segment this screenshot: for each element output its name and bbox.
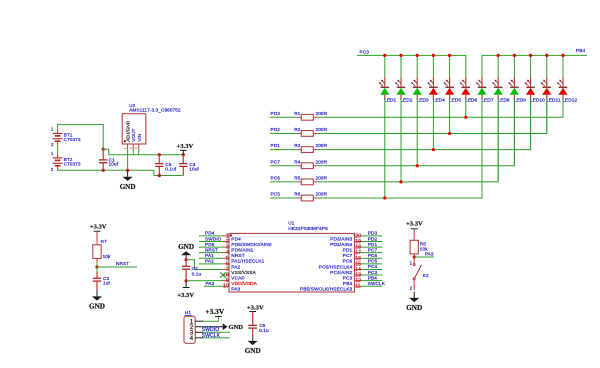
svg-text:PC3: PC3 bbox=[343, 275, 353, 281]
svg-text:200R: 200R bbox=[316, 111, 328, 116]
ground GND C6 bbox=[245, 338, 261, 355]
net label PD2 row bbox=[271, 127, 281, 132]
svg-text:PC5: PC5 bbox=[368, 259, 378, 264]
LED LED5 bbox=[444, 78, 462, 104]
wire LED12 cathode bbox=[562, 100, 564, 118]
svg-text:200R: 200R bbox=[316, 175, 328, 180]
junction PA3 node bbox=[413, 255, 416, 258]
svg-text:LED2: LED2 bbox=[400, 97, 412, 103]
capacitor C6 bbox=[248, 312, 269, 339]
net label SWDIO bbox=[202, 327, 219, 333]
ground GND mcu rail bbox=[178, 243, 194, 260]
wire LED6 cathode bbox=[465, 100, 467, 118]
switch K2 bbox=[410, 257, 429, 291]
junction row R4 to LED3 bbox=[416, 164, 419, 167]
pin 7 U1 VSS/VSSA bbox=[223, 267, 257, 276]
svg-text:U1: U1 bbox=[288, 220, 295, 226]
net label PA1 left bbox=[205, 253, 214, 258]
svg-text:LED10: LED10 bbox=[530, 97, 545, 103]
junction NRST node bbox=[95, 265, 98, 268]
wire U2 VOUT stub bbox=[132, 150, 134, 155]
LED LED10 bbox=[525, 78, 545, 104]
wire SWDIO net bbox=[203, 331, 230, 333]
pin 9 U1 VDD/VDDA bbox=[223, 278, 258, 287]
wire LED2 cathode bbox=[400, 100, 402, 182]
svg-text:0.1uf: 0.1uf bbox=[165, 166, 177, 171]
svg-text:200R: 200R bbox=[316, 192, 328, 197]
net label PB4 bus bbox=[576, 48, 585, 53]
LED LED3 bbox=[411, 78, 429, 104]
svg-text:VCAP: VCAP bbox=[231, 275, 244, 281]
junction LED4 bus bbox=[432, 54, 435, 57]
power +3.3V power section bbox=[177, 143, 194, 155]
svg-text:PB4: PB4 bbox=[368, 275, 377, 280]
resistor R8 bbox=[410, 229, 428, 257]
wire LED4 anode bbox=[432, 55, 434, 77]
svg-text:LED9: LED9 bbox=[514, 97, 526, 103]
MCU U1 bbox=[229, 220, 355, 292]
capacitor C2 bbox=[182, 260, 202, 281]
power +3.3V H1 bbox=[205, 307, 224, 317]
svg-text:C70373: C70373 bbox=[64, 161, 81, 166]
svg-text:PD3/AIN3: PD3/AIN3 bbox=[330, 236, 352, 242]
wire LED3 cathode bbox=[416, 100, 418, 166]
svg-text:PC6: PC6 bbox=[368, 253, 378, 258]
svg-text:GND: GND bbox=[178, 243, 194, 251]
wire LED4 cathode bbox=[432, 100, 434, 150]
resistor R2 bbox=[294, 127, 327, 136]
pin 1 U2 ADJ/GND bbox=[124, 144, 128, 150]
svg-text:K2: K2 bbox=[423, 273, 429, 278]
LED LED7 bbox=[476, 78, 494, 104]
svg-text:PA2: PA2 bbox=[205, 259, 214, 264]
pin 13 U1 PC3 bbox=[343, 273, 362, 282]
net label SWCLK bbox=[202, 333, 221, 339]
svg-text:SWCLK: SWCLK bbox=[202, 333, 221, 339]
svg-text:LED8: LED8 bbox=[498, 97, 510, 103]
pin 14 U1 PC4/AIN2 bbox=[330, 267, 361, 276]
pin 5 U1 PA1/HSECLK1 bbox=[223, 256, 265, 265]
svg-text:PD4: PD4 bbox=[205, 231, 215, 236]
svg-text:R6: R6 bbox=[294, 192, 300, 197]
svg-text:PD4: PD4 bbox=[231, 236, 241, 242]
net label PD6 left bbox=[205, 242, 215, 247]
wire LED5 anode bbox=[449, 55, 451, 77]
net label PC6 right bbox=[368, 253, 378, 258]
pin 2 U2 VOUT bbox=[129, 144, 133, 150]
net label PD4 left bbox=[205, 231, 215, 236]
wire PC5 to R6 bbox=[270, 197, 298, 199]
net label PC4 right bbox=[368, 264, 378, 269]
power +3.3V C6 bbox=[247, 305, 264, 312]
wire R3 to LEDs bbox=[317, 100, 530, 150]
svg-text:LED4: LED4 bbox=[433, 97, 445, 103]
svg-text:R8: R8 bbox=[420, 241, 426, 246]
svg-text:200R: 200R bbox=[316, 127, 328, 132]
wire LED1 cathode bbox=[384, 100, 386, 199]
wire LED12 anode bbox=[562, 55, 564, 77]
svg-text:SWCLK: SWCLK bbox=[368, 281, 386, 286]
svg-text:PA1/HSECLK1: PA1/HSECLK1 bbox=[231, 259, 264, 265]
svg-text:1uf: 1uf bbox=[103, 281, 110, 286]
resistor R3 bbox=[294, 143, 327, 152]
wire LED5 cathode bbox=[449, 100, 451, 134]
svg-text:10: 10 bbox=[223, 284, 229, 290]
pin 17 U1 PC7 bbox=[343, 250, 362, 259]
wire LED3 anode bbox=[416, 55, 418, 77]
svg-text:GND: GND bbox=[229, 324, 244, 331]
pin 16 U1 PC6 bbox=[343, 256, 362, 265]
svg-text:PC7: PC7 bbox=[368, 247, 378, 252]
svg-text:LED3: LED3 bbox=[417, 97, 429, 103]
svg-text:3: 3 bbox=[134, 147, 138, 149]
junction ground GND node bbox=[126, 169, 129, 172]
wire PC3 bus bbox=[357, 55, 466, 77]
junction LED12 bus bbox=[561, 54, 564, 57]
svg-text:+3.3V: +3.3V bbox=[90, 223, 107, 230]
junction LED5 bus bbox=[448, 54, 451, 57]
wire LED7 cathode bbox=[481, 100, 483, 199]
net label PC3 bus bbox=[360, 50, 370, 55]
junction LED3 bus bbox=[416, 54, 419, 57]
pin 20 U1 PD3/AIN3 bbox=[330, 233, 361, 242]
wire LED10 cathode bbox=[530, 100, 532, 150]
svg-text:PC6: PC6 bbox=[271, 175, 281, 180]
svg-text:GND: GND bbox=[245, 347, 261, 355]
junction LED11 bus bbox=[545, 54, 548, 57]
svg-text:+3.3V: +3.3V bbox=[177, 292, 194, 299]
svg-text:PC5/HSECLK4: PC5/HSECLK4 bbox=[319, 264, 353, 270]
svg-text:ADJ/GND: ADJ/GND bbox=[126, 120, 132, 142]
svg-text:PC7: PC7 bbox=[271, 159, 281, 164]
wire LED10 anode bbox=[530, 55, 532, 77]
wire PA3 net right bbox=[414, 256, 434, 258]
net label PC7 row bbox=[271, 159, 281, 164]
wire LED11 cathode bbox=[546, 100, 548, 134]
svg-text:200R: 200R bbox=[316, 143, 328, 148]
LED LED9 bbox=[508, 78, 526, 104]
svg-text:GND: GND bbox=[120, 183, 136, 191]
svg-text:PD2/AIN4: PD2/AIN4 bbox=[330, 242, 352, 248]
svg-text:LED1: LED1 bbox=[384, 97, 396, 103]
wire PD1 to R3 bbox=[270, 149, 298, 151]
svg-text:PB4: PB4 bbox=[576, 48, 585, 53]
svg-text:SWDIO: SWDIO bbox=[205, 236, 222, 241]
net label PA3 left bbox=[206, 281, 215, 286]
wire R4 to LEDs bbox=[317, 100, 514, 166]
svg-text:PC6: PC6 bbox=[343, 259, 353, 265]
junction row R6 to LED1 bbox=[383, 196, 386, 199]
wire net NRST left bbox=[199, 252, 223, 254]
junction LED2 bus bbox=[399, 54, 402, 57]
junction LED9 bus bbox=[513, 54, 516, 57]
battery BT2 bbox=[51, 151, 81, 172]
svg-text:VDD/VDDA: VDD/VDDA bbox=[231, 281, 257, 287]
wire VIN net bbox=[103, 149, 183, 155]
svg-text:10uf: 10uf bbox=[109, 161, 119, 166]
svg-text:NRST: NRST bbox=[116, 261, 129, 266]
wire PC7 to R4 bbox=[270, 165, 298, 167]
ground GND power section bbox=[120, 170, 136, 191]
header H1 bbox=[184, 310, 195, 343]
svg-text:R4: R4 bbox=[294, 159, 300, 164]
wire net PC7 right bbox=[362, 252, 383, 254]
svg-text:VIN: VIN bbox=[137, 133, 143, 142]
battery BT1 bbox=[51, 126, 81, 147]
svg-text:+3.3V: +3.3V bbox=[406, 220, 423, 227]
net label PA3 K2 bbox=[425, 252, 434, 257]
net label SWDIO left bbox=[205, 236, 222, 241]
junction LED1 bus bbox=[383, 54, 386, 57]
svg-text:10k: 10k bbox=[103, 254, 111, 259]
net label SWCLK right bbox=[368, 281, 386, 286]
LED LED2 bbox=[395, 78, 413, 104]
junction VSS node bbox=[185, 258, 188, 261]
svg-text:NRST: NRST bbox=[231, 253, 244, 259]
pin 2 H1 bbox=[190, 324, 204, 331]
svg-text:PD1: PD1 bbox=[343, 247, 353, 253]
svg-text:GND: GND bbox=[406, 304, 422, 312]
svg-text:LED7: LED7 bbox=[481, 97, 493, 103]
svg-text:PC4: PC4 bbox=[368, 264, 378, 269]
svg-text:PD3: PD3 bbox=[368, 231, 378, 236]
pin 2 U1 PD5/SWDIO/AIN0 bbox=[223, 239, 272, 248]
junction row R3 to LED4 bbox=[432, 148, 435, 151]
wire LED8 anode bbox=[497, 55, 499, 77]
wire SWCLK net bbox=[203, 337, 230, 339]
pin 3 H1 bbox=[190, 330, 204, 337]
svg-text:11: 11 bbox=[355, 284, 360, 290]
net label PD2 right bbox=[368, 236, 378, 241]
svg-text:PA3: PA3 bbox=[425, 252, 434, 257]
pin 18 U1 PD1 bbox=[343, 245, 362, 254]
svg-text:C2: C2 bbox=[192, 266, 198, 271]
capacitor C3 bbox=[93, 267, 111, 290]
svg-text:2: 2 bbox=[129, 147, 133, 149]
svg-text:PD5/SWDIO/AIN0: PD5/SWDIO/AIN0 bbox=[231, 242, 272, 248]
svg-text:200R: 200R bbox=[316, 159, 328, 164]
svg-text:HK32F030MF4P6: HK32F030MF4P6 bbox=[288, 226, 328, 232]
svg-text:PD2: PD2 bbox=[271, 127, 281, 132]
net label PC7 right bbox=[368, 247, 378, 252]
pin 11 U1 PB5/SWCLK/HSECLK3 bbox=[300, 284, 362, 293]
pin 10 U1 PA3 bbox=[223, 284, 241, 293]
svg-text:NRST: NRST bbox=[205, 247, 218, 252]
pin 4 U1 NRST bbox=[223, 250, 245, 259]
wire net PD3 right bbox=[362, 235, 383, 237]
LED LED8 bbox=[492, 78, 510, 104]
wire PC6 to R5 bbox=[270, 181, 298, 183]
svg-text:PC5: PC5 bbox=[271, 192, 281, 197]
svg-text:LED6: LED6 bbox=[465, 97, 477, 103]
net label PD3 row bbox=[271, 111, 281, 116]
wire VSS to pin7 bbox=[186, 260, 222, 270]
wire LED8 cathode bbox=[497, 100, 499, 182]
svg-text:PD6/AIN1: PD6/AIN1 bbox=[231, 247, 253, 253]
LED LED12 bbox=[557, 78, 577, 104]
svg-text:PA2: PA2 bbox=[231, 264, 240, 270]
resistor R6 bbox=[294, 192, 327, 201]
wire PD3 to R1 bbox=[270, 116, 298, 118]
pin 6 U1 PA2 bbox=[223, 261, 241, 270]
wire PA3 pin10 bbox=[204, 285, 223, 287]
ground GND K2 bbox=[406, 292, 422, 313]
wire net PD4 left bbox=[199, 235, 223, 237]
junction C5 top bbox=[158, 153, 161, 156]
wire R2 to LEDs bbox=[317, 100, 547, 134]
svg-text:R1: R1 bbox=[294, 111, 300, 116]
wire ground rail bottom bbox=[58, 169, 184, 175]
no-connect VCAP pin8 bbox=[220, 272, 226, 278]
pin 3 U2 VIN bbox=[134, 144, 139, 150]
svg-text:R5: R5 bbox=[294, 175, 300, 180]
svg-text:0.1u: 0.1u bbox=[192, 272, 202, 277]
LED LED6 bbox=[460, 78, 478, 104]
resistor R4 bbox=[294, 159, 327, 168]
wire net PB4 right bbox=[362, 280, 383, 282]
power +3.3V NRST bbox=[90, 223, 107, 231]
svg-text:LED11: LED11 bbox=[546, 97, 561, 103]
resistor R1 bbox=[294, 111, 327, 120]
net label PC3 right bbox=[368, 270, 378, 275]
svg-text:R2: R2 bbox=[294, 127, 300, 132]
pin 15 U1 PC5/HSECLK4 bbox=[319, 261, 362, 270]
svg-text:4: 4 bbox=[190, 335, 194, 342]
svg-text:LED12: LED12 bbox=[562, 97, 577, 103]
net label PD1 row bbox=[271, 143, 281, 148]
junction row R5 to LED2 bbox=[399, 180, 402, 183]
pin 3 U1 PD6/AIN1 bbox=[223, 245, 254, 254]
LED LED4 bbox=[427, 78, 445, 104]
regulator U2 bbox=[122, 103, 181, 144]
junction LED10 bus bbox=[529, 54, 532, 57]
pin 4 H1 bbox=[190, 335, 204, 342]
svg-text:PD1: PD1 bbox=[271, 143, 281, 148]
ground GND NRST bbox=[89, 290, 105, 311]
wire net PD6 left bbox=[199, 246, 223, 248]
svg-text:PA3: PA3 bbox=[231, 287, 240, 293]
LED LED1 bbox=[379, 78, 397, 104]
svg-text:GND: GND bbox=[89, 303, 105, 311]
svg-text:PD1: PD1 bbox=[368, 242, 378, 247]
pin 12 U1 PB4 bbox=[343, 278, 362, 287]
power +3.3V mcu rail bbox=[177, 281, 194, 299]
svg-text:+3.3V: +3.3V bbox=[177, 143, 194, 150]
wire R1 to LEDs bbox=[317, 100, 563, 118]
junction row R1 to LED6 bbox=[464, 116, 467, 119]
wire net PD1 right bbox=[362, 246, 383, 248]
wire PB4 bus bbox=[482, 55, 587, 77]
ground GND H1 bbox=[223, 323, 244, 331]
svg-text:+3.3V: +3.3V bbox=[247, 305, 264, 312]
wire H1 pin2 to GND bbox=[203, 326, 222, 328]
wire battery top bbox=[58, 125, 104, 150]
junction LED8 bus bbox=[497, 54, 500, 57]
svg-text:PB5/SWCLK/HSECLK3: PB5/SWCLK/HSECLK3 bbox=[300, 287, 353, 293]
wire R5 to LEDs bbox=[317, 100, 498, 182]
net label NRST left bbox=[205, 247, 218, 252]
svg-text:+3.3V: +3.3V bbox=[205, 307, 224, 316]
pin 19 U1 PD2/AIN4 bbox=[330, 239, 361, 248]
power +3.3V K2 bbox=[406, 220, 423, 228]
wire net SWCLK right bbox=[362, 285, 383, 287]
net label PC6 row bbox=[271, 175, 281, 180]
wire net SWDIO left bbox=[199, 240, 223, 242]
svg-text:1: 1 bbox=[124, 147, 128, 149]
pin 8 U1 VCAP bbox=[223, 273, 245, 282]
capacitor C4 bbox=[179, 155, 199, 176]
svg-text:PD2: PD2 bbox=[368, 236, 378, 241]
svg-text:R3: R3 bbox=[294, 143, 300, 148]
svg-text:0.1u: 0.1u bbox=[259, 328, 269, 333]
wire NRST net bbox=[97, 266, 137, 268]
capacitor C1 bbox=[99, 149, 119, 170]
wire PD2 to R2 bbox=[270, 132, 298, 134]
wire net PA2 left bbox=[199, 263, 223, 265]
wire LED11 anode bbox=[546, 55, 548, 77]
wire net PC4 right bbox=[362, 268, 383, 270]
svg-text:R7: R7 bbox=[101, 239, 107, 244]
junction C1 bottom bbox=[102, 169, 105, 172]
wire net PD2 right bbox=[362, 240, 383, 242]
wire U2 ADJ to ground rail bbox=[127, 150, 129, 171]
svg-text:VSS/VSSA: VSS/VSSA bbox=[231, 270, 256, 276]
junction VDD node bbox=[185, 279, 188, 282]
net label PD3 right bbox=[368, 231, 378, 236]
net label PB4 right bbox=[368, 275, 377, 280]
wire net PA1 left bbox=[199, 257, 223, 259]
wire H1 pin1 to +3.3V bbox=[203, 317, 218, 322]
svg-text:LED5: LED5 bbox=[449, 97, 461, 103]
net label PC5 row bbox=[271, 192, 281, 197]
junction C5 bottom bbox=[158, 174, 161, 177]
svg-text:VOUT: VOUT bbox=[131, 128, 137, 141]
resistor R5 bbox=[294, 175, 327, 184]
junction battery plus node bbox=[102, 148, 105, 151]
capacitor C5 bbox=[155, 155, 177, 176]
svg-text:PC3: PC3 bbox=[368, 270, 378, 275]
resistor R7 bbox=[93, 231, 111, 263]
net label PD1 right bbox=[368, 242, 378, 247]
wire between batteries bbox=[57, 145, 59, 154]
wire net PC3 right bbox=[362, 274, 383, 276]
net label PC5 right bbox=[368, 259, 378, 264]
LED LED11 bbox=[541, 78, 561, 104]
svg-text:PA1: PA1 bbox=[205, 253, 214, 258]
wire U2 VIN stub bbox=[138, 150, 140, 155]
wire net PC6 right bbox=[362, 257, 383, 259]
pin 1 U1 PD4 bbox=[223, 233, 242, 242]
junction row R2 to LED5 bbox=[448, 132, 451, 135]
wire VDD to pin9 bbox=[186, 280, 222, 282]
wire R7 to node bbox=[96, 263, 98, 267]
wire LED1 anode bbox=[384, 55, 386, 77]
wire R6 to LEDs bbox=[317, 100, 482, 199]
svg-text:PA3: PA3 bbox=[206, 281, 215, 286]
svg-text:10uf: 10uf bbox=[189, 166, 199, 171]
svg-text:PD6: PD6 bbox=[205, 242, 215, 247]
pin 1 H1 bbox=[190, 318, 204, 325]
svg-text:PB4: PB4 bbox=[343, 281, 353, 287]
svg-text:PC4/AIN2: PC4/AIN2 bbox=[330, 270, 352, 276]
wire LED9 cathode bbox=[513, 100, 515, 166]
svg-text:PC3: PC3 bbox=[360, 50, 370, 55]
wire net PC5 right bbox=[362, 263, 383, 265]
svg-text:PC7: PC7 bbox=[343, 253, 353, 259]
wire LED9 anode bbox=[513, 55, 515, 77]
svg-text:AMS1117-3.3_C880752: AMS1117-3.3_C880752 bbox=[129, 108, 181, 113]
svg-text:PD3: PD3 bbox=[271, 111, 281, 116]
